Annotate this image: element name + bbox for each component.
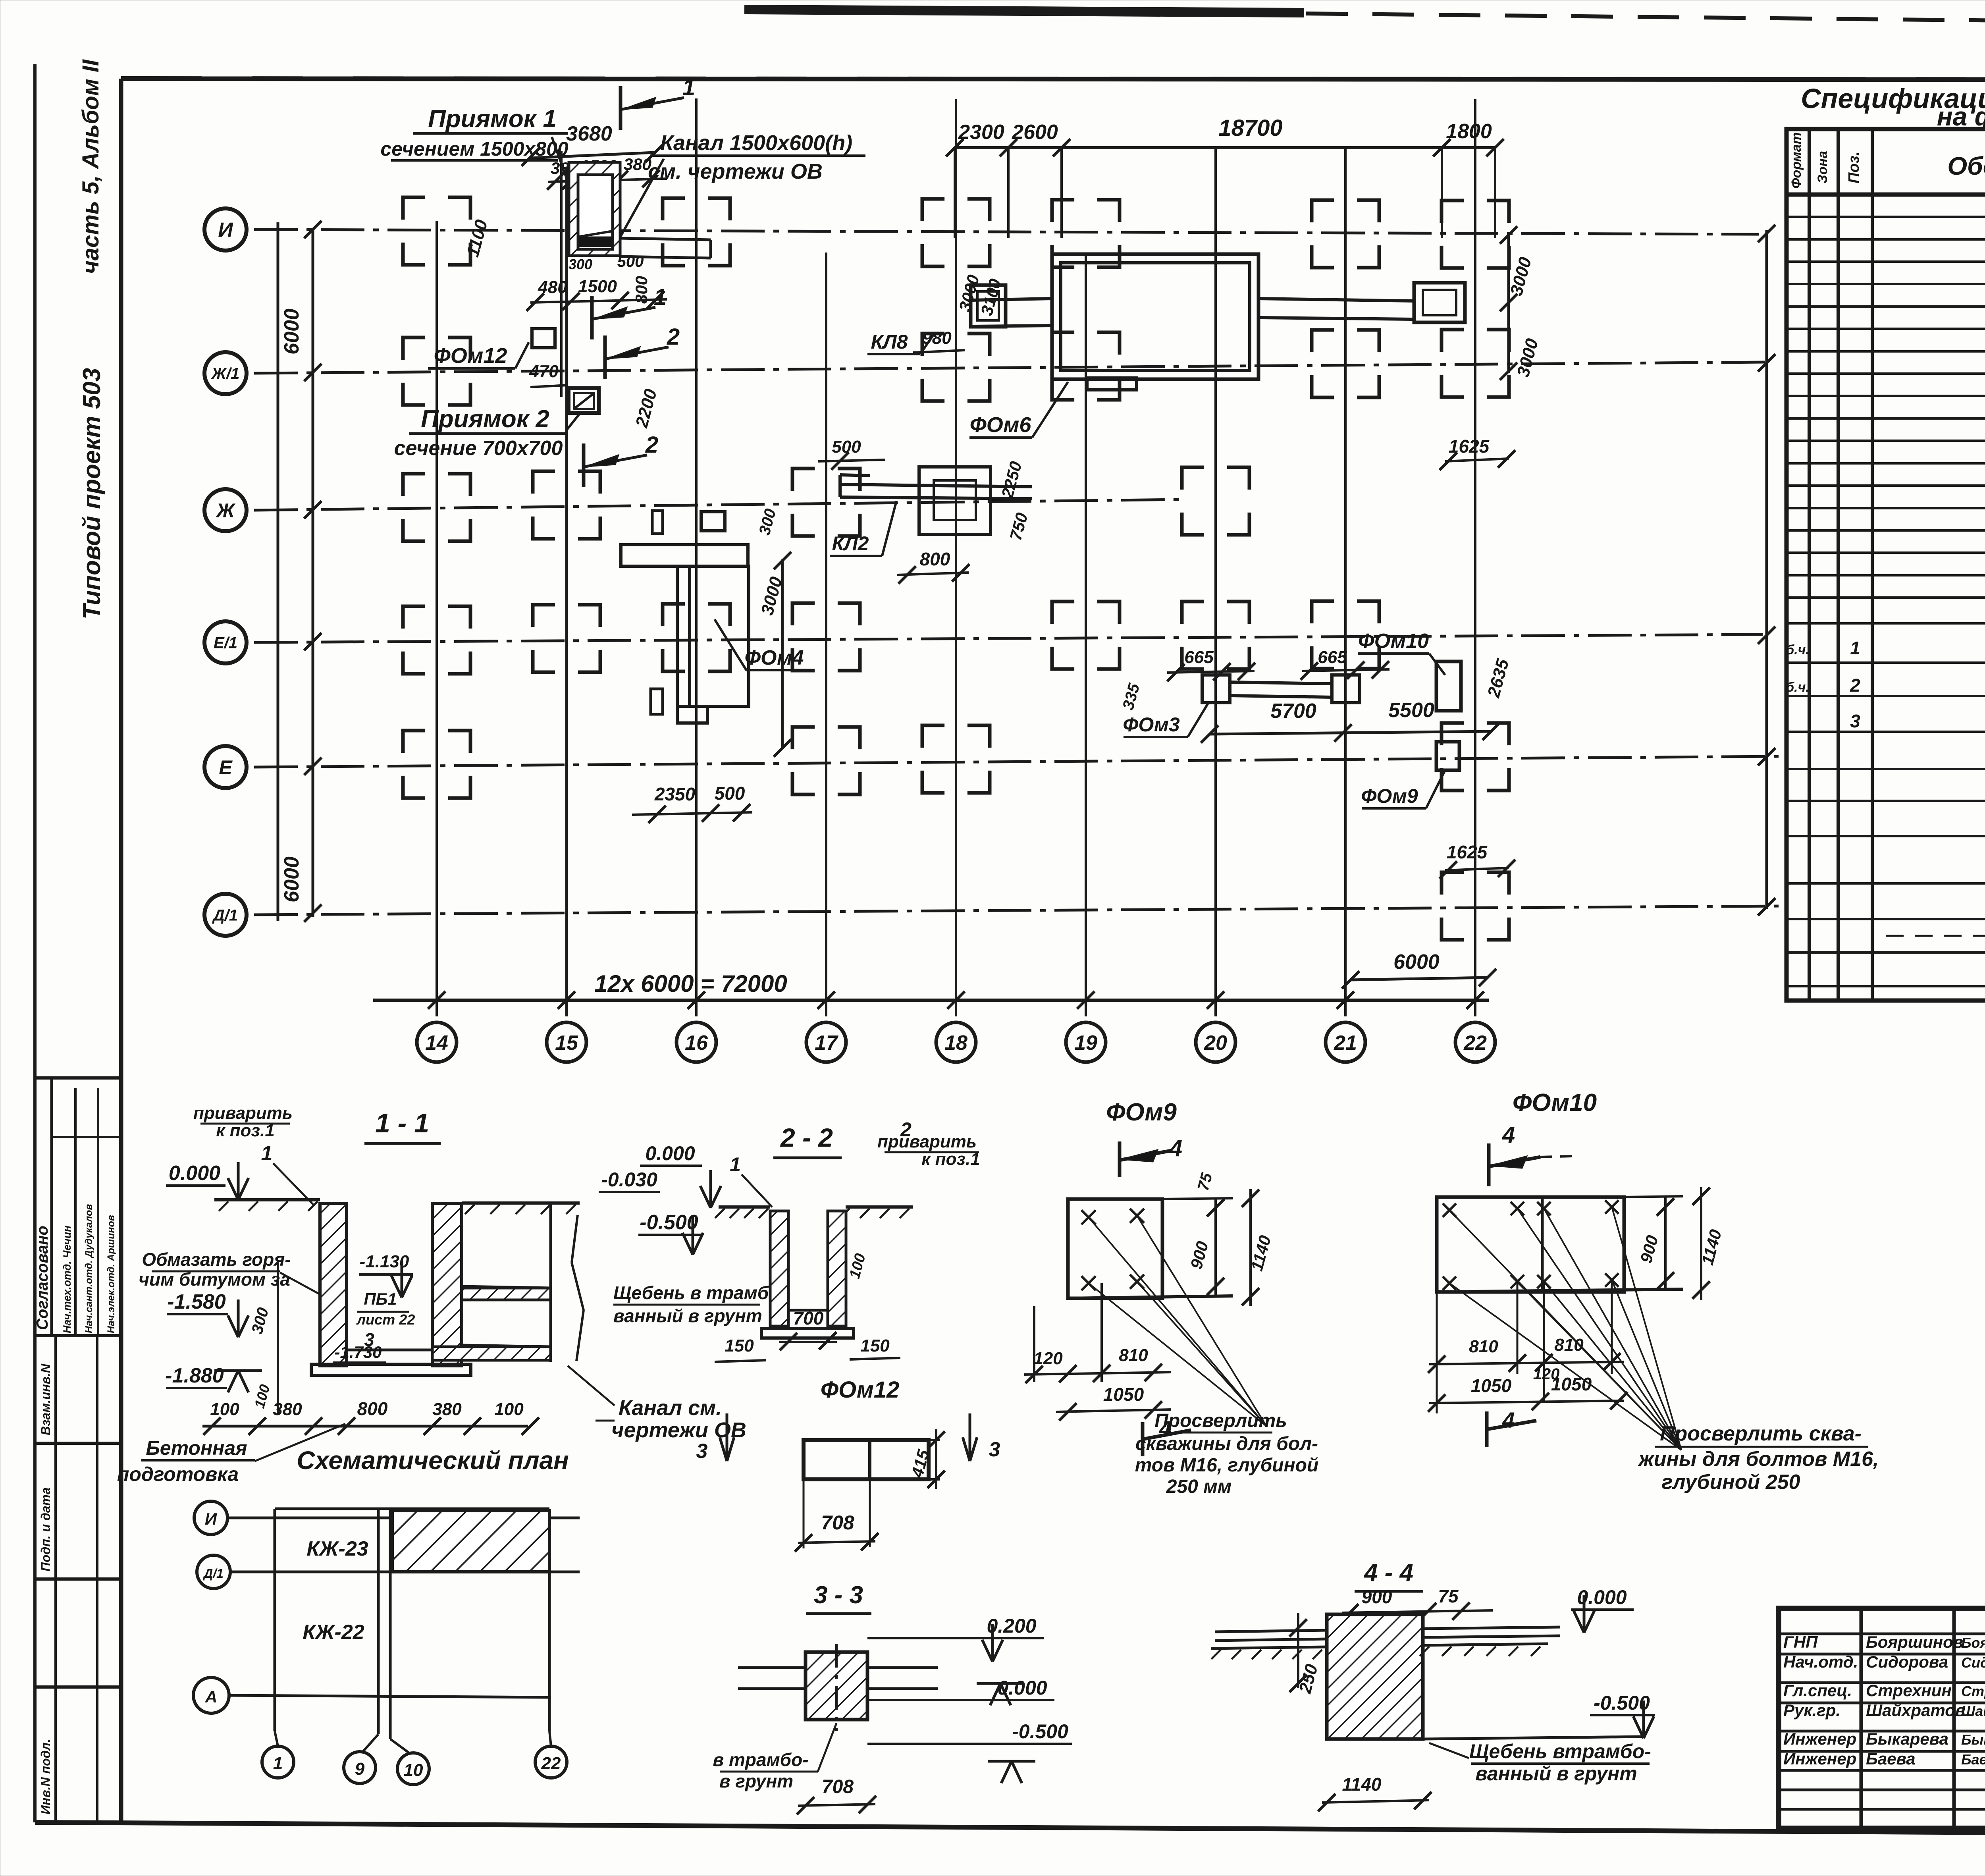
svg-text:часть 5, Альбом II: часть 5, Альбом II xyxy=(78,59,104,274)
svg-text:Приямок 2: Приямок 2 xyxy=(421,405,549,433)
svg-text:-1.880: -1.880 xyxy=(165,1364,224,1387)
svg-text:2600: 2600 xyxy=(1012,121,1058,144)
svg-text:И: И xyxy=(205,1510,217,1528)
svg-text:1050: 1050 xyxy=(1103,1384,1144,1405)
svg-text:Стре: Стре xyxy=(1961,1683,1985,1699)
svg-text:5700: 5700 xyxy=(1270,700,1316,723)
svg-text:1: 1 xyxy=(682,75,695,100)
svg-text:Д/1: Д/1 xyxy=(212,906,238,924)
svg-text:2: 2 xyxy=(667,324,680,350)
svg-text:1: 1 xyxy=(730,1153,741,1176)
svg-text:ФОм4: ФОм4 xyxy=(744,646,804,669)
svg-text:3680: 3680 xyxy=(566,122,612,145)
svg-text:в грунт: в грунт xyxy=(719,1771,793,1791)
svg-text:Бетонная: Бетонная xyxy=(146,1437,247,1459)
svg-text:Сидорова: Сидорова xyxy=(1866,1652,1948,1671)
svg-text:665: 665 xyxy=(1318,648,1347,667)
svg-text:19: 19 xyxy=(1074,1032,1097,1055)
svg-text:Е/1: Е/1 xyxy=(214,634,237,652)
svg-text:Ж/1: Ж/1 xyxy=(211,365,239,382)
svg-text:2300: 2300 xyxy=(958,121,1004,144)
svg-text:-0.500: -0.500 xyxy=(1012,1720,1068,1743)
svg-text:75: 75 xyxy=(1438,1586,1459,1606)
svg-text:в трамбо-: в трамбо- xyxy=(713,1749,808,1770)
svg-text:1050: 1050 xyxy=(1551,1374,1592,1394)
svg-text:1625: 1625 xyxy=(1447,842,1488,862)
svg-text:ФОм9: ФОм9 xyxy=(1361,785,1418,807)
svg-text:20: 20 xyxy=(1204,1032,1227,1055)
svg-text:Подп. и дата: Подп. и дата xyxy=(39,1487,53,1571)
svg-text:Баева: Баева xyxy=(1866,1749,1916,1768)
svg-text:500: 500 xyxy=(715,783,745,804)
svg-text:1050: 1050 xyxy=(1471,1375,1512,1396)
svg-text:И: И xyxy=(218,219,233,242)
svg-text:4: 4 xyxy=(1502,1407,1515,1433)
svg-text:22: 22 xyxy=(541,1754,561,1773)
svg-text:0.200: 0.200 xyxy=(987,1615,1036,1637)
svg-text:Инженер: Инженер xyxy=(1783,1749,1856,1768)
svg-text:22: 22 xyxy=(1463,1032,1487,1055)
svg-text:Поз.: Поз. xyxy=(1846,152,1862,184)
svg-text:1: 1 xyxy=(261,1142,273,1165)
svg-text:120: 120 xyxy=(1033,1349,1063,1368)
svg-text:4: 4 xyxy=(1169,1136,1182,1161)
svg-text:21: 21 xyxy=(1334,1032,1357,1055)
svg-text:700: 700 xyxy=(793,1308,824,1328)
svg-text:ФОм3: ФОм3 xyxy=(1123,713,1180,736)
svg-text:15: 15 xyxy=(555,1032,578,1055)
svg-text:3 - 3: 3 - 3 xyxy=(814,1581,863,1609)
svg-text:150: 150 xyxy=(860,1336,890,1355)
svg-text:708: 708 xyxy=(821,1512,854,1534)
svg-text:380: 380 xyxy=(432,1400,462,1419)
svg-text:Быкарева: Быкарева xyxy=(1866,1729,1948,1748)
svg-text:0.000: 0.000 xyxy=(645,1142,695,1165)
svg-text:16: 16 xyxy=(685,1032,708,1055)
svg-text:КЛ8: КЛ8 xyxy=(871,331,908,353)
svg-text:18700: 18700 xyxy=(1218,115,1282,141)
svg-text:Канал 1500х600(h): Канал 1500х600(h) xyxy=(660,131,852,155)
svg-text:6000: 6000 xyxy=(280,856,303,902)
svg-text:Нач.отд.: Нач.отд. xyxy=(1783,1652,1858,1671)
svg-text:4 - 4: 4 - 4 xyxy=(1363,1559,1413,1587)
svg-text:Канал см.: Канал см. xyxy=(619,1396,722,1420)
svg-text:Приямок 1: Приямок 1 xyxy=(428,105,557,133)
svg-text:150: 150 xyxy=(725,1336,754,1355)
svg-text:Щебень втрамбо-: Щебень втрамбо- xyxy=(1469,1740,1651,1762)
svg-text:100: 100 xyxy=(494,1400,524,1419)
svg-text:1 - 1: 1 - 1 xyxy=(375,1108,429,1138)
svg-text:1800: 1800 xyxy=(1446,120,1492,143)
svg-text:ванный в грунт: ванный в грунт xyxy=(613,1305,762,1326)
svg-text:100: 100 xyxy=(210,1400,239,1419)
svg-text:Формат: Формат xyxy=(1789,132,1804,189)
svg-text:800: 800 xyxy=(920,549,950,569)
svg-text:Быка: Быка xyxy=(1961,1731,1985,1748)
svg-text:0.000: 0.000 xyxy=(169,1162,220,1185)
svg-text:9: 9 xyxy=(355,1759,365,1779)
svg-text:подготовка: подготовка xyxy=(117,1463,239,1485)
svg-text:ванный в грунт: ванный в грунт xyxy=(1475,1762,1637,1785)
svg-text:Нач.элек.отд. Аршинов: Нач.элек.отд. Аршинов xyxy=(106,1215,117,1333)
svg-text:Ж: Ж xyxy=(215,499,236,522)
svg-text:лист 22: лист 22 xyxy=(356,1311,415,1328)
svg-text:14: 14 xyxy=(425,1032,448,1055)
svg-text:1140: 1140 xyxy=(1342,1774,1382,1795)
svg-text:ПБ1: ПБ1 xyxy=(364,1290,397,1308)
svg-text:Нач.тех.отд. Чечин: Нач.тех.отд. Чечин xyxy=(61,1226,73,1333)
svg-text:380: 380 xyxy=(273,1400,302,1419)
svg-text:2: 2 xyxy=(645,432,658,458)
svg-text:Рук.гр.: Рук.гр. xyxy=(1783,1701,1840,1720)
svg-text:приварить: приварить xyxy=(877,1132,977,1151)
svg-text:Гл.спец.: Гл.спец. xyxy=(1783,1681,1852,1700)
svg-text:ФОм10: ФОм10 xyxy=(1513,1089,1597,1116)
svg-text:КЖ-23: КЖ-23 xyxy=(306,1537,368,1560)
svg-text:2 - 2: 2 - 2 xyxy=(780,1123,833,1152)
svg-text:б.ч.: б.ч. xyxy=(1786,642,1810,657)
svg-text:2: 2 xyxy=(900,1118,912,1141)
svg-text:А: А xyxy=(205,1687,217,1706)
svg-text:ФОм10: ФОм10 xyxy=(1358,630,1429,653)
svg-text:18: 18 xyxy=(944,1032,967,1055)
svg-text:Обозначение: Обозначение xyxy=(1947,152,1985,180)
svg-text:810: 810 xyxy=(1469,1337,1498,1356)
svg-text:810: 810 xyxy=(1119,1346,1148,1365)
svg-text:800: 800 xyxy=(357,1398,388,1419)
svg-text:скважины для бол-: скважины для бол- xyxy=(1135,1433,1318,1454)
svg-text:Инв.N подл.: Инв.N подл. xyxy=(39,1739,53,1814)
svg-text:-0.500: -0.500 xyxy=(640,1211,698,1234)
svg-text:Просверлить сква-: Просверлить сква- xyxy=(1660,1422,1862,1445)
svg-text:665: 665 xyxy=(1184,648,1214,667)
svg-text:Типовой проект 503: Типовой проект 503 xyxy=(78,368,106,619)
svg-text:6000: 6000 xyxy=(1393,951,1440,974)
svg-text:708: 708 xyxy=(822,1776,854,1797)
svg-text:250 мм: 250 мм xyxy=(1166,1476,1231,1497)
svg-text:Шайх: Шайх xyxy=(1961,1703,1985,1719)
svg-text:Согласовано: Согласовано xyxy=(34,1226,51,1330)
svg-text:17: 17 xyxy=(815,1032,838,1055)
svg-text:2350: 2350 xyxy=(654,784,696,804)
svg-text:1500: 1500 xyxy=(578,277,617,296)
svg-text:Нач.сант.отд. Дудукалов: Нач.сант.отд. Дудукалов xyxy=(83,1204,94,1333)
svg-text:см. чертежи ОВ: см. чертежи ОВ xyxy=(648,160,823,183)
svg-text:-1.580: -1.580 xyxy=(167,1290,226,1313)
svg-text:КЖ-22: КЖ-22 xyxy=(303,1621,364,1644)
svg-text:470: 470 xyxy=(529,362,559,381)
svg-text:-0.500: -0.500 xyxy=(1594,1692,1650,1714)
svg-text:на фундамент ФОм9, ФОм10, ФОм1: на фундамент ФОм9, ФОм10, ФОм12 xyxy=(1937,102,1985,131)
svg-text:Схематический план: Схематический план xyxy=(297,1446,569,1475)
svg-text:6000: 6000 xyxy=(280,308,303,355)
svg-text:ГНП: ГНП xyxy=(1783,1633,1818,1651)
svg-text:1: 1 xyxy=(654,284,667,310)
svg-text:Стрехнин: Стрехнин xyxy=(1866,1681,1952,1700)
svg-text:Обмазать горя-: Обмазать горя- xyxy=(142,1249,291,1270)
svg-text:1: 1 xyxy=(1850,638,1860,658)
svg-text:тов М16, глубиной: тов М16, глубиной xyxy=(1135,1455,1319,1476)
svg-text:810: 810 xyxy=(1554,1335,1584,1355)
svg-text:жины для болтов М16,: жины для болтов М16, xyxy=(1638,1448,1879,1471)
svg-text:-1.730: -1.730 xyxy=(334,1343,382,1361)
svg-text:сечение 700х700: сечение 700х700 xyxy=(394,437,563,460)
svg-text:Зона: Зона xyxy=(1815,151,1830,183)
svg-text:Шайхратов: Шайхратов xyxy=(1866,1701,1965,1720)
svg-text:приварить: приварить xyxy=(193,1103,293,1123)
svg-text:980: 980 xyxy=(922,328,952,348)
svg-text:Е: Е xyxy=(219,756,233,779)
svg-text:Взам.инв.N: Взам.инв.N xyxy=(39,1363,53,1435)
svg-text:Бояршинов: Бояршинов xyxy=(1866,1633,1963,1651)
svg-text:Д/1: Д/1 xyxy=(202,1566,224,1581)
svg-text:3: 3 xyxy=(989,1438,1000,1461)
svg-text:5500: 5500 xyxy=(1388,699,1434,722)
svg-text:Баев: Баев xyxy=(1961,1751,1985,1768)
svg-text:3: 3 xyxy=(1850,711,1860,731)
svg-text:12х 6000 = 72000: 12х 6000 = 72000 xyxy=(594,970,787,997)
svg-text:300: 300 xyxy=(569,256,592,272)
svg-text:Сидо: Сидо xyxy=(1961,1654,1985,1671)
svg-text:ФОм12: ФОм12 xyxy=(821,1377,900,1403)
svg-text:900: 900 xyxy=(1362,1587,1392,1607)
svg-text:ФОм6: ФОм6 xyxy=(970,413,1032,437)
svg-text:Просверлить: Просверлить xyxy=(1154,1410,1287,1431)
svg-text:-0.030: -0.030 xyxy=(601,1168,657,1191)
svg-text:глубиной 250: глубиной 250 xyxy=(1661,1471,1800,1494)
svg-text:4: 4 xyxy=(1502,1122,1515,1148)
svg-text:Инженер: Инженер xyxy=(1783,1729,1856,1748)
svg-text:б.ч.: б.ч. xyxy=(1786,680,1810,695)
svg-text:2: 2 xyxy=(1850,675,1860,696)
svg-text:10: 10 xyxy=(404,1760,423,1780)
svg-text:1: 1 xyxy=(273,1754,283,1773)
svg-text:Щебень в трамбо-: Щебень в трамбо- xyxy=(613,1282,786,1303)
svg-text:3: 3 xyxy=(696,1440,708,1463)
svg-text:Бояр: Бояр xyxy=(1961,1635,1985,1651)
svg-text:ФОм9: ФОм9 xyxy=(1106,1099,1177,1126)
